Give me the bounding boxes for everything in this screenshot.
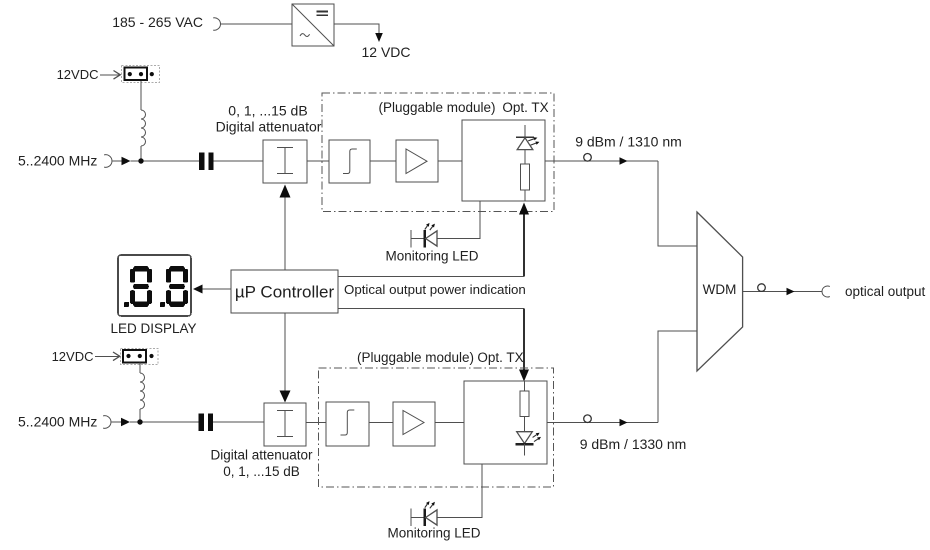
wire to WDM upper input	[658, 161, 697, 246]
svg-text:(Pluggable module): (Pluggable module)	[357, 350, 474, 365]
wire D3 stub	[524, 444, 526, 455]
light rays D3	[533, 435, 537, 438]
wire C1 to attenuator A1	[214, 160, 263, 162]
optical transmitter U10 bottom	[464, 381, 547, 464]
svg-text:0, 1, ...15 dB: 0, 1, ...15 dB	[223, 464, 300, 479]
capacitor C1 DC block top	[199, 153, 214, 171]
svg-text:(Pluggable module): (Pluggable module)	[378, 100, 495, 115]
arrowhead into Opt TX bottom	[519, 370, 529, 382]
comparator U5 top	[329, 140, 370, 183]
svg-text:Opt. TX: Opt. TX	[477, 350, 523, 365]
node B junction bottom	[137, 419, 142, 424]
control line U1 to attenuator A1	[284, 198, 286, 271]
wire C2 to attenuator A2	[213, 421, 264, 423]
wire AC input to PSU	[221, 23, 293, 25]
arrowhead optical line top	[620, 157, 628, 165]
digital attenuator A1 top	[263, 140, 307, 183]
control line up into Opt TX top	[523, 214, 525, 277]
wire inductor L2 to node B	[139, 409, 141, 422]
svg-text:µP Controller: µP Controller	[235, 283, 335, 302]
arrowhead RF input top	[122, 157, 131, 166]
wire R2 to laser diode D3	[524, 417, 526, 432]
svg-text:12 VDC: 12 VDC	[362, 44, 411, 60]
arrowhead into A1	[280, 185, 291, 198]
svg-text:Digital attenuator: Digital attenuator	[210, 448, 313, 463]
wire U1 lower right to Opt TX bottom	[338, 308, 524, 310]
arrowhead RF input bottom	[121, 418, 130, 427]
arrow 12VDC into jumper J4	[95, 355, 119, 357]
wire comparator to amplifier bottom	[369, 422, 393, 424]
decimal point 2	[160, 302, 165, 307]
svg-text:Digital attenuator: Digital attenuator	[216, 119, 322, 135]
arrowhead 12VDC down	[375, 33, 383, 42]
svg-text:12VDC: 12VDC	[57, 67, 99, 82]
seven segment digit 2	[166, 266, 188, 307]
svg-text:Monitoring LED: Monitoring LED	[385, 249, 478, 264]
wire comparator to amplifier top	[370, 160, 396, 162]
wire to WDM lower input	[658, 331, 697, 423]
wire node A to C1	[131, 160, 200, 162]
wire amplifier to Opt TX bottom	[435, 422, 464, 424]
laser diode D3 bottom	[516, 432, 534, 445]
microcontroller U1	[231, 270, 338, 313]
jumper J4 12VDC bottom	[121, 349, 159, 365]
wire amplifier to Opt TX top	[438, 160, 462, 162]
wire A1 to comparator top	[307, 160, 329, 162]
svg-text:WDM: WDM	[703, 282, 737, 297]
wire A2 to comparator bottom	[306, 422, 326, 424]
svg-text:185 - 265 VAC: 185 - 265 VAC	[112, 14, 203, 30]
arrow 12VDC into jumper J2	[100, 74, 120, 76]
wire jumper J4 to inductor L2	[139, 363, 141, 374]
comparator U8 bottom	[326, 402, 369, 446]
capacitor C2 DC block bottom	[199, 413, 214, 431]
connector J5 RF input bottom	[103, 416, 111, 429]
svg-text:optical output: optical output	[845, 284, 926, 299]
wire R1 to box bottom	[524, 190, 526, 201]
wire to laser diode D1	[524, 125, 526, 137]
connector J6 optical output	[822, 286, 830, 297]
svg-text:Opt. TX: Opt. TX	[502, 100, 548, 115]
wire U1 to LED display	[202, 288, 231, 290]
inductor L1	[141, 110, 146, 146]
arrowhead into A2	[280, 391, 291, 403]
svg-text:Optical output power indicatio: Optical output power indication	[344, 282, 526, 297]
resistor R2 bottom	[520, 391, 529, 417]
WDM combiner U11	[697, 212, 743, 371]
svg-text:5..2400 MHz: 5..2400 MHz	[18, 153, 97, 169]
wire PSU output	[334, 24, 379, 33]
wire WDM output	[743, 291, 822, 293]
control line U1 to attenuator A2	[284, 313, 286, 391]
decimal point 1	[124, 302, 129, 307]
svg-text:LED DISPLAY: LED DISPLAY	[110, 321, 196, 336]
amplifier U9 bottom	[393, 402, 435, 446]
seven segment digit 1	[130, 266, 152, 307]
wire Opt TX output top	[545, 160, 658, 162]
arrowhead optical output	[787, 288, 795, 296]
inductor L2	[140, 373, 145, 409]
arrowhead into Opt TX top	[519, 203, 529, 215]
amplifier U6 top	[396, 140, 438, 182]
wire Opt TX bottom to LED D4	[437, 464, 482, 518]
wire D1 to resistor R1	[524, 150, 526, 164]
connector J3 RF input top	[104, 155, 112, 168]
svg-text:9 dBm / 1330 nm: 9 dBm / 1330 nm	[580, 436, 687, 452]
wire node B to C2	[130, 421, 199, 423]
LED display DS1	[118, 255, 191, 316]
wire box top to resistor R2	[524, 382, 526, 392]
monitoring LED D2 top	[411, 230, 437, 248]
light rays D2	[425, 226, 428, 230]
monitor point circle top	[584, 154, 592, 162]
monitoring LED D4 bottom	[411, 509, 437, 527]
power supply U4 AC/DC converter	[292, 4, 334, 46]
control line down into Opt TX bottom	[523, 309, 525, 370]
arrowhead into LED display	[193, 285, 203, 294]
connector J1 AC input	[213, 18, 220, 30]
wire RF input top	[113, 160, 122, 162]
resistor R1 top	[520, 164, 529, 190]
svg-text:12VDC: 12VDC	[52, 349, 94, 364]
monitor point circle bottom	[584, 415, 592, 423]
wire LED D2 to Opt TX	[437, 238, 480, 240]
wire U1 upper right to Opt TX top	[338, 276, 524, 278]
wire RF input bottom	[112, 421, 122, 423]
monitor point circle output	[758, 284, 766, 292]
svg-text:0, 1, ...15 dB: 0, 1, ...15 dB	[228, 103, 307, 119]
wire jumper to inductor L1	[140, 81, 142, 110]
wire LED D4	[437, 517, 482, 519]
svg-text:Monitoring LED: Monitoring LED	[387, 526, 480, 541]
jumper J2 12VDC top	[122, 65, 160, 82]
pluggable module box bottom	[319, 368, 554, 487]
laser diode D1 top	[516, 137, 534, 149]
node A junction top	[138, 158, 143, 163]
light rays D1	[528, 139, 534, 141]
digital attenuator A2 bottom	[264, 403, 306, 446]
svg-text:5..2400 MHz: 5..2400 MHz	[18, 414, 97, 430]
wire inductor L1 to node A	[140, 146, 142, 161]
wire Opt TX output bottom	[547, 422, 658, 424]
pluggable module box top	[322, 93, 554, 212]
arrowhead optical line bottom	[620, 419, 628, 427]
light rays D4	[425, 504, 428, 508]
svg-text:9 dBm / 1310 nm: 9 dBm / 1310 nm	[575, 134, 682, 150]
wire Opt TX bottom to LED top	[437, 201, 480, 239]
optical transmitter U7 top	[462, 120, 545, 201]
